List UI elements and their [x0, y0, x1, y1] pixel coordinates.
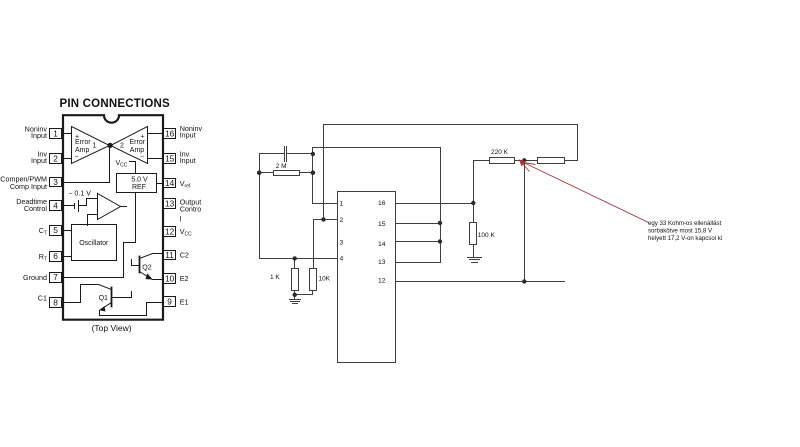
svg-text:7: 7 [53, 272, 58, 282]
svg-text:Input: Input [180, 131, 196, 140]
svg-text:+: + [75, 134, 79, 141]
svg-text:1: 1 [93, 143, 97, 150]
svg-text:16: 16 [165, 129, 175, 139]
svg-text:8: 8 [53, 297, 58, 307]
svg-text:12: 12 [378, 278, 386, 285]
svg-text:E1: E1 [180, 298, 189, 307]
svg-text:4: 4 [340, 256, 344, 263]
svg-text:5: 5 [53, 225, 58, 235]
svg-text:1 K: 1 K [270, 274, 280, 281]
svg-text:2: 2 [340, 217, 344, 224]
svg-text:helyett 17,2 V-on kapcsol ki: helyett 17,2 V-on kapcsol ki [648, 235, 722, 242]
svg-text:10: 10 [165, 273, 175, 283]
svg-text:220 K: 220 K [491, 149, 509, 156]
svg-text:Control: Control [24, 204, 48, 213]
svg-text:Comp Input: Comp Input [10, 182, 47, 191]
svg-text:PIN CONNECTIONS: PIN CONNECTIONS [60, 98, 170, 110]
svg-text:13: 13 [165, 199, 175, 209]
svg-text:1: 1 [340, 200, 344, 207]
svg-text:2: 2 [53, 153, 58, 163]
svg-text:−: − [140, 154, 144, 161]
svg-text:Contro: Contro [180, 205, 202, 214]
svg-text:(Top View): (Top View) [92, 323, 132, 333]
svg-text:16: 16 [378, 200, 386, 207]
svg-text:2: 2 [120, 143, 124, 150]
svg-text:E2: E2 [180, 274, 189, 283]
svg-text:REF: REF [132, 184, 146, 191]
svg-text:Input: Input [180, 156, 196, 165]
svg-text:Q2: Q2 [142, 265, 151, 272]
svg-text:4: 4 [53, 201, 58, 211]
svg-text:Oscillator: Oscillator [79, 240, 109, 247]
svg-text:15: 15 [378, 221, 386, 228]
svg-text:6: 6 [53, 251, 58, 261]
svg-text:3: 3 [53, 177, 58, 187]
svg-text:C1: C1 [38, 294, 47, 303]
svg-text:1: 1 [53, 129, 58, 139]
svg-text:− 0.1 V: − 0.1 V [69, 191, 92, 198]
svg-text:11: 11 [165, 250, 174, 260]
svg-text:C2: C2 [180, 251, 189, 260]
svg-text:Input: Input [31, 156, 47, 165]
svg-text:10K: 10K [319, 275, 331, 282]
svg-text:5.0 V: 5.0 V [131, 177, 148, 184]
svg-text:Ground: Ground [23, 273, 47, 282]
svg-text:sorbakötve most 15,8 V: sorbakötve most 15,8 V [648, 228, 713, 235]
svg-text:13: 13 [378, 259, 386, 266]
svg-text:+: + [141, 134, 145, 141]
svg-text:100 K: 100 K [478, 232, 496, 239]
svg-text:−: − [75, 154, 79, 161]
svg-text:3: 3 [340, 239, 344, 246]
svg-text:Q1: Q1 [99, 295, 108, 302]
svg-text:12: 12 [165, 227, 175, 237]
svg-text:9: 9 [167, 297, 172, 307]
svg-text:14: 14 [378, 241, 386, 248]
svg-text:15: 15 [165, 153, 175, 163]
svg-text:14: 14 [165, 178, 175, 188]
svg-text:Input: Input [31, 131, 47, 140]
svg-text:2 M: 2 M [276, 163, 287, 170]
svg-text:egy 33 Kohm-os ellenállást: egy 33 Kohm-os ellenállást [648, 220, 721, 227]
